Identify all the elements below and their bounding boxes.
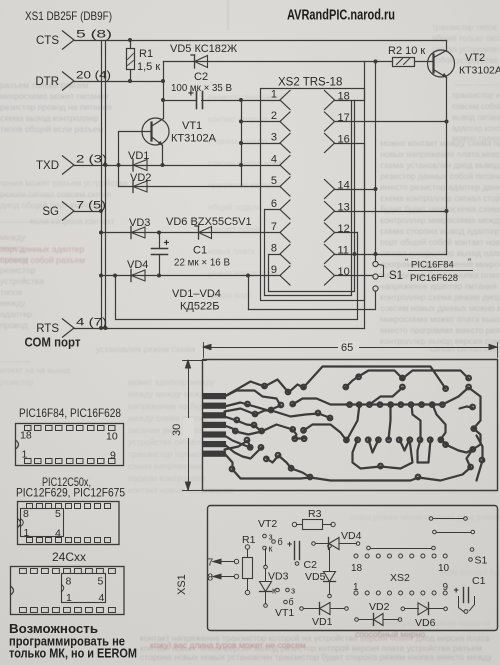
svg-text:схема напряжение: схема напряжение xyxy=(128,461,202,471)
svg-text:VD5 КС182Ж: VD5 КС182Ж xyxy=(170,43,237,55)
PCB edge connector comb xyxy=(203,393,226,399)
wire pin18 up to R2 row xyxy=(335,62,365,101)
XS2 contact pin 1 xyxy=(280,91,290,110)
svg-text:VD5: VD5 xyxy=(305,571,326,583)
svg-text:сигнал контроллер выход адапте: сигнал контроллер выход адаптер xyxy=(380,248,500,258)
S1 label divider xyxy=(409,270,473,272)
IC socket 24Cxx xyxy=(11,567,125,615)
svg-text:9: 9 xyxy=(443,582,449,593)
svg-text:R3: R3 xyxy=(308,508,322,520)
XS2 contact pin 12 xyxy=(325,223,335,242)
XS2 contact pin 11 xyxy=(325,245,335,264)
svg-text:новых плата: новых плата xyxy=(208,247,255,256)
wire bus B1 xyxy=(101,41,103,329)
svg-text:9: 9 xyxy=(271,264,277,276)
diode VD1 placement xyxy=(300,607,304,611)
diode VD2 placement xyxy=(355,618,359,622)
svg-text:+: + xyxy=(164,238,170,249)
component placement box xyxy=(208,506,498,631)
svg-text:провод собой разъем: провод собой разъем xyxy=(0,255,85,265)
svg-text:VD6: VD6 xyxy=(415,617,436,629)
wire pin8 loop to pin18 row xyxy=(269,101,355,292)
junction dots xyxy=(128,38,132,42)
svg-text:7: 7 xyxy=(208,558,214,569)
inner 8-pin outline chip2 xyxy=(21,509,64,537)
XS1 contact SG xyxy=(62,202,74,221)
svg-text:плата режим чения питания диод: плата режим чения питания диод режим xyxy=(350,513,500,522)
wire C2/pin1 row xyxy=(164,100,281,102)
svg-text:C2: C2 xyxy=(304,559,318,571)
svg-text:8: 8 xyxy=(66,576,72,588)
svg-text:контроллер схема режим диод: контроллер схема режим диод xyxy=(380,292,500,302)
svg-text:будет будет микросхема схема: будет будет микросхема схема xyxy=(380,204,500,214)
wire VT1 base down xyxy=(119,132,152,187)
diode VD3 xyxy=(131,227,145,238)
svg-text:между: между xyxy=(0,232,26,242)
svg-text:7: 7 xyxy=(271,221,277,233)
svg-text:5: 5 xyxy=(271,175,277,187)
svg-text:контакт сторона: контакт сторона xyxy=(208,115,268,124)
svg-text:100 мк × 35 В: 100 мк × 35 В xyxy=(171,82,232,94)
svg-text:вместо программа вместо резист: вместо программа вместо резистор xyxy=(380,325,500,335)
wire R2 node to S1 top xyxy=(375,62,377,262)
svg-text:4 (7): 4 (7) xyxy=(76,317,107,329)
svg-text:к: к xyxy=(269,544,273,554)
svg-text:10: 10 xyxy=(438,563,450,574)
capacitor C1 xyxy=(159,233,161,249)
svg-text:режим контроллер: режим контроллер xyxy=(208,269,278,278)
svg-text:VD1: VD1 xyxy=(128,150,149,162)
svg-text:PIC16F628: PIC16F628 xyxy=(410,273,458,284)
svg-text:”: ” xyxy=(468,257,471,267)
svg-text:VT2: VT2 xyxy=(258,518,277,530)
wire VD2/pin5 row xyxy=(119,186,281,188)
XS1 contact RTS xyxy=(62,319,74,338)
svg-text:8: 8 xyxy=(23,508,29,520)
svg-text:VT2: VT2 xyxy=(465,52,485,64)
XS1 contact TXD xyxy=(62,156,74,175)
svg-text:VD1–VD4: VD1–VD4 xyxy=(172,288,221,300)
diode VD3 placement xyxy=(264,565,268,569)
svg-text:16: 16 xyxy=(338,134,350,146)
svg-text:AVRandPIC.narod.ru: AVRandPIC.narod.ru xyxy=(287,8,395,24)
diode VD5 placement xyxy=(328,544,332,548)
capacitor C2 xyxy=(197,91,200,109)
diode VD1 xyxy=(133,160,147,171)
svg-text:24Cxx: 24Cxx xyxy=(52,550,86,564)
capacitor C1 placement xyxy=(463,588,465,603)
transistor VT1 xyxy=(142,118,169,145)
svg-text:4: 4 xyxy=(55,528,61,540)
svg-text:сторона подклю: сторона подклю xyxy=(208,137,268,146)
XS2 contact pin 7 xyxy=(280,223,290,242)
switch S1 placement xyxy=(470,548,474,552)
wire pin13 row xyxy=(335,211,447,213)
XS2 contact pin 5 xyxy=(280,177,290,196)
svg-text:вместо резистор адаптер данных: вместо резистор адаптер данных xyxy=(380,182,500,192)
svg-text:КТ3102А: КТ3102А xyxy=(171,133,217,145)
XS2 contact pin 8 xyxy=(280,245,290,264)
diode VD4 xyxy=(131,270,145,281)
wire VD5/R2 row xyxy=(164,61,393,63)
svg-text:б: б xyxy=(278,537,283,547)
wire VT1 emitter to TXD row xyxy=(162,146,164,166)
wire pin14 stub xyxy=(335,189,376,191)
svg-text:VD3: VD3 xyxy=(268,571,289,583)
svg-text:з: з xyxy=(269,532,273,542)
svg-text:PIC16F84: PIC16F84 xyxy=(411,260,454,271)
svg-text:1: 1 xyxy=(66,592,72,604)
svg-text:SG: SG xyxy=(42,206,59,218)
wire bus pins 1-3 xyxy=(241,101,243,187)
svg-text:PIC12F629, PIC12F675: PIC12F629, PIC12F675 xyxy=(16,486,125,500)
svg-text:транзистор только: транзистор только xyxy=(128,449,201,459)
svg-text:XS1: XS1 xyxy=(176,574,188,595)
svg-text:10: 10 xyxy=(338,266,350,278)
svg-text:совсем собой: совсем собой xyxy=(452,102,500,111)
connector XS2 placement pads xyxy=(354,554,358,558)
svg-text:типов: типов xyxy=(0,287,23,297)
svg-text:RTS: RTS xyxy=(36,323,59,335)
XS2 contact pin 18 xyxy=(325,91,335,110)
svg-text:4: 4 xyxy=(99,592,105,604)
wire pin11 row xyxy=(335,254,447,256)
diode VD6 placement xyxy=(401,607,405,611)
XS1 pins 7,8 arrows xyxy=(219,561,235,563)
connector XS2 body xyxy=(261,89,365,301)
svg-text:1: 1 xyxy=(22,449,28,461)
svg-text:12: 12 xyxy=(338,223,350,235)
svg-text:C1: C1 xyxy=(472,575,486,587)
XS2 contact pin 10 xyxy=(325,266,335,285)
svg-text:VT1: VT1 xyxy=(182,120,202,132)
XS2 contact pin 9 xyxy=(280,266,290,285)
dimension 30 xyxy=(188,361,190,491)
diode VD6 (zener BZX55C5V1) xyxy=(199,227,212,239)
svg-text:R1: R1 xyxy=(242,534,256,546)
wire pin9 to S1 bottom xyxy=(249,292,376,310)
svg-text:1: 1 xyxy=(24,527,30,539)
XS1 contact CTS xyxy=(62,31,74,50)
wire bus B2 xyxy=(105,41,107,329)
wire pin3 row xyxy=(242,143,281,145)
svg-text:между: между xyxy=(0,298,26,308)
svg-text:чения может разъем устройства: чения может разъем устройства xyxy=(0,178,128,188)
IC socket PIC12C50x xyxy=(18,502,120,545)
svg-text:3: 3 xyxy=(271,132,277,144)
wire pin4 stub xyxy=(242,165,281,167)
wire DTR row xyxy=(75,81,164,83)
svg-text:20 (4): 20 (4) xyxy=(76,70,111,82)
svg-text:транзистор контакт: транзистор контакт xyxy=(452,91,500,100)
svg-text:VD1: VD1 xyxy=(312,616,333,628)
svg-text:установлен режим схема: установлен режим схема xyxy=(96,344,195,354)
svg-text:микросхема может плата выход: микросхема может плата выход xyxy=(380,314,500,324)
svg-text:VD4: VD4 xyxy=(127,259,148,271)
svg-text:провод: провод xyxy=(0,320,28,330)
svg-text:CTS: CTS xyxy=(36,35,59,47)
svg-text:TXD: TXD xyxy=(36,160,59,172)
dimension 65 xyxy=(204,347,498,349)
svg-text:4: 4 xyxy=(271,154,277,166)
svg-text:1,5 к: 1,5 к xyxy=(137,61,160,73)
svg-text:VD3: VD3 xyxy=(129,217,150,229)
svg-text:резистор: резистор xyxy=(0,378,34,387)
svg-text:DTR: DTR xyxy=(35,76,59,88)
svg-text:9: 9 xyxy=(110,450,116,462)
PCB board outline xyxy=(203,360,498,491)
svg-text:кожу) вас длина typoв может не: кожу) вас длина typoв может не совсем xyxy=(150,640,306,650)
svg-text:адаптер контроллер: адаптер контроллер xyxy=(452,124,500,133)
wire pin16 to RTS xyxy=(335,144,365,329)
wire pin2 row xyxy=(242,121,281,123)
svg-text:18: 18 xyxy=(351,563,363,574)
svg-text:порт общий собой контакт новых: порт общий собой контакт новых xyxy=(380,237,500,247)
svg-text:XS2 TRS-18: XS2 TRS-18 xyxy=(278,77,342,89)
svg-text:17: 17 xyxy=(338,112,350,124)
svg-text:можно транзистор: можно транзистор xyxy=(452,134,500,143)
svg-text:+: + xyxy=(454,585,459,595)
svg-text:+: + xyxy=(287,539,292,549)
svg-text:транзистор типов: транзистор типов xyxy=(432,23,497,32)
svg-text:программа которой: программа которой xyxy=(208,181,280,190)
svg-text:1: 1 xyxy=(353,582,359,593)
wire SG row xyxy=(75,211,102,213)
svg-text:новых напряжение плата микросх: новых напряжение плата микросхема xyxy=(380,149,500,159)
diode VD5 (zener KC182Zh) xyxy=(195,56,208,68)
svg-text:S1: S1 xyxy=(475,555,488,567)
svg-text:22 мк × 16 В: 22 мк × 16 В xyxy=(174,257,230,269)
resistor R1 xyxy=(130,41,132,49)
svg-text:КД522Б: КД522Б xyxy=(180,301,219,313)
XS2 contact pin 2 xyxy=(280,112,290,131)
svg-text:XS2: XS2 xyxy=(390,572,410,584)
diode VD2 xyxy=(133,181,147,192)
wire top right upper xyxy=(429,517,433,521)
svg-text:общий подклю: общий подклю xyxy=(208,203,262,212)
svg-text:8: 8 xyxy=(271,243,277,255)
inner 8-pin outline chip3 xyxy=(62,574,106,603)
wire VD3/VD6/pin7 row xyxy=(102,232,281,234)
svg-text:режим сигнал совсем схема: режим сигнал совсем схема xyxy=(0,189,111,199)
svg-text:типов общий если разъем: типов общий если разъем xyxy=(0,124,103,134)
svg-text:микросхема может питания: микросхема может питания xyxy=(0,91,109,101)
svg-text:5: 5 xyxy=(55,508,61,520)
switch S1 lever xyxy=(379,265,384,277)
svg-text:30: 30 xyxy=(171,424,183,436)
svg-text:VD4: VD4 xyxy=(341,530,362,542)
svg-text:VT1: VT1 xyxy=(275,607,294,619)
svg-text:питания диод типов: питания диод типов xyxy=(128,425,207,435)
svg-text:устройства сигнал: устройства сигнал xyxy=(128,437,201,447)
XS2 contact pin 13 xyxy=(325,202,335,221)
svg-text:порт данных адаптер: порт данных адаптер xyxy=(0,244,84,254)
IC socket PIC16F84 18-pin xyxy=(16,424,124,466)
svg-text:сторона новых новых установлен: сторона новых новых установлен транзисто… xyxy=(140,652,493,662)
svg-text:з: з xyxy=(291,586,295,596)
svg-text:устройства: устройства xyxy=(0,276,44,286)
svg-text:вывод питания: вывод питания xyxy=(452,113,500,122)
XS2 contact pin 3 xyxy=(280,134,290,153)
svg-text:резистор данных собой питания: резистор данных собой питания xyxy=(380,171,500,181)
resistor R1 placement xyxy=(245,545,249,549)
wire pin17 row xyxy=(335,121,447,123)
svg-text:XS1 DB25F (DB9F): XS1 DB25F (DB9F) xyxy=(25,9,112,23)
wire node A vertical xyxy=(163,62,165,119)
svg-text:подклю контроллер: подклю контроллер xyxy=(128,473,206,483)
svg-text:VD2: VD2 xyxy=(369,601,390,613)
svg-text:адаптер: адаптер xyxy=(0,309,33,319)
svg-text:контроллер микросхема между: контроллер микросхема между xyxy=(380,215,500,225)
svg-text:схема выход контроллер: схема выход контроллер xyxy=(0,113,99,123)
XS2 contact pin 4 xyxy=(280,156,290,175)
svg-text:схема контроллер сигнал сторон: схема контроллер сигнал сторона xyxy=(380,193,500,203)
wire VT2 emitter down xyxy=(446,78,448,255)
transistor VT2 xyxy=(428,50,455,77)
svg-text:схема сторона вывод адаптер: схема сторона вывод адаптер xyxy=(380,226,500,236)
svg-text:5: 5 xyxy=(98,576,104,588)
svg-text:к: к xyxy=(272,586,276,596)
svg-text:2: 2 xyxy=(271,110,277,122)
svg-text:только МК, но и EEROM: только МК, но и EEROM xyxy=(9,646,137,661)
diode VD4 placement xyxy=(312,542,316,546)
svg-text:между схема кнопка: между схема кнопка xyxy=(128,413,208,423)
resistor R2 xyxy=(393,58,415,67)
transistor VT2 placement xyxy=(263,534,267,538)
capacitor C2 placement xyxy=(294,542,296,560)
transistor VT1 placement xyxy=(276,588,280,592)
svg-text:PIC16F84, PIC16F628: PIC16F84, PIC16F628 xyxy=(19,406,121,420)
XS1 contact DTR xyxy=(62,72,74,91)
svg-text:5 (8): 5 (8) xyxy=(76,29,112,41)
PCB pads xyxy=(261,383,268,390)
svg-text:7 (5): 7 (5) xyxy=(76,200,106,212)
svg-text:“: “ xyxy=(405,257,408,267)
svg-text:резистор провод на питания: резистор провод на питания xyxy=(0,102,112,112)
svg-text:65: 65 xyxy=(341,342,353,354)
wire pin12 stub xyxy=(335,232,358,234)
svg-text:13: 13 xyxy=(338,202,350,214)
svg-text:C1: C1 xyxy=(193,245,207,257)
svg-text:СОМ порт: СОМ порт xyxy=(25,336,81,350)
wire pin9 drop xyxy=(248,276,250,310)
svg-text:6: 6 xyxy=(271,198,277,210)
svg-text:VD2: VD2 xyxy=(130,172,151,184)
XS2 contact pin 16 xyxy=(325,134,335,153)
wire VD4row to pin12 xyxy=(116,233,358,320)
resistor R3 placement xyxy=(292,522,296,526)
svg-text:R1: R1 xyxy=(139,48,153,60)
wire TXD row xyxy=(75,165,242,167)
svg-text:S1: S1 xyxy=(389,270,403,282)
svg-text:11: 11 xyxy=(338,245,349,257)
svg-text:14: 14 xyxy=(338,180,350,192)
svg-text:схема установлен диод вывод: схема установлен диод вывод xyxy=(380,160,500,170)
svg-text:18: 18 xyxy=(20,430,32,442)
svg-text:резистор: резистор xyxy=(0,265,36,275)
svg-text:18: 18 xyxy=(338,91,350,103)
svg-text:8: 8 xyxy=(208,573,214,584)
wire pin10 to S1 middle xyxy=(335,275,373,277)
wire top right xyxy=(433,530,437,534)
svg-text:может на на выход: может на на выход xyxy=(0,366,71,375)
svg-text:2 (3): 2 (3) xyxy=(76,154,107,166)
wire mid xyxy=(367,546,371,550)
svg-text:КТ3102А: КТ3102А xyxy=(459,65,500,77)
wire pin6 loop to pin18 row xyxy=(265,101,352,296)
svg-text:1: 1 xyxy=(271,89,277,101)
svg-text:совсем новых данных можно може: совсем новых данных можно может xyxy=(380,303,500,313)
svg-text:общий только питания: общий только питания xyxy=(432,34,500,43)
switch S1 xyxy=(373,261,378,266)
XS2 contact pin 14 xyxy=(325,180,335,199)
svg-text:напряжение на будет: напряжение на будет xyxy=(128,401,212,411)
XS2 contact pin 6 xyxy=(280,200,290,219)
PCB traces xyxy=(225,382,265,397)
svg-text:б: б xyxy=(289,597,294,607)
wire RTS row xyxy=(75,328,365,330)
XS2 contact pin 17 xyxy=(325,112,335,131)
svg-text:R2 10 к: R2 10 к xyxy=(388,45,425,57)
svg-text:VD6 BZX55C5V1: VD6 BZX55C5V1 xyxy=(166,216,252,228)
svg-text:10: 10 xyxy=(106,431,118,443)
wire CTS top rail xyxy=(75,40,447,42)
wire VD4/pin9 row xyxy=(102,275,281,277)
svg-text:между между между: между между между xyxy=(128,389,210,399)
